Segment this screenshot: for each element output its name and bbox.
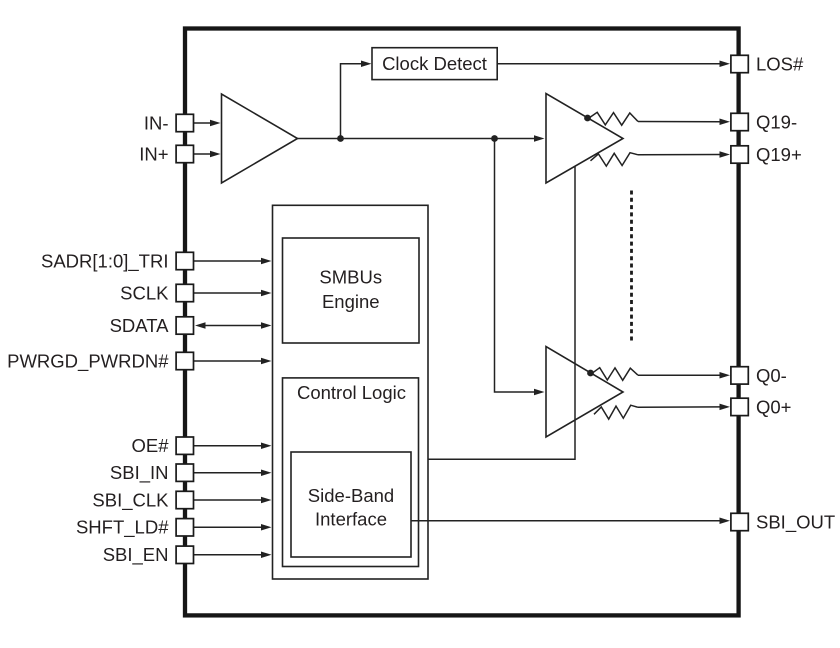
dashed line repeated outputs bbox=[630, 191, 633, 342]
svg-text:Interface: Interface bbox=[315, 509, 387, 530]
svg-text:SCLK: SCLK bbox=[120, 282, 169, 303]
wire enable from control logic container to upper buffer bbox=[428, 166, 575, 459]
svg-text:Clock Detect: Clock Detect bbox=[382, 53, 487, 74]
svg-text:Q0+: Q0+ bbox=[756, 396, 791, 417]
wire SHFT_LD# to container with arrowhead bbox=[194, 524, 272, 531]
pin SBI_OUT bbox=[731, 513, 748, 530]
wire SBI_EN to container with arrowhead bbox=[194, 552, 272, 559]
resistor termination Q19- zigzag bbox=[589, 112, 638, 125]
pin SCLK bbox=[176, 284, 193, 301]
label SMBUs Engine bbox=[319, 267, 382, 312]
pin SHFT_LD# bbox=[176, 519, 193, 536]
svg-text:Side-Band: Side-Band bbox=[308, 485, 394, 506]
wire IN+ to input buffer with arrowhead bbox=[194, 151, 221, 158]
wire Clock Detect to LOS# pin with arrowhead bbox=[498, 61, 731, 68]
wire resistor to Q0- pin with arrowhead bbox=[638, 372, 730, 379]
pin SBI_CLK bbox=[176, 491, 193, 508]
svg-text:SHFT_LD#: SHFT_LD# bbox=[76, 517, 169, 539]
output buffer lower (Q0) bbox=[546, 347, 623, 438]
pin LOS# bbox=[731, 55, 748, 72]
wire SDATA bidirectional arrows bbox=[195, 322, 272, 329]
node dot on upper buffer top slope bbox=[584, 115, 591, 122]
clock detect box bbox=[372, 48, 497, 80]
pin IN- bbox=[176, 114, 193, 131]
pin Q0+ bbox=[731, 398, 748, 415]
svg-text:IN+: IN+ bbox=[139, 143, 168, 164]
pin SBI_EN bbox=[176, 546, 193, 563]
label Side-Band Interface bbox=[308, 485, 394, 530]
svg-text:SDATA: SDATA bbox=[110, 315, 170, 336]
control logic box bbox=[283, 378, 419, 567]
wire OE# to container with arrowhead bbox=[194, 442, 272, 449]
wire SADR[1:0]_TRI to container with arrowhead bbox=[194, 258, 272, 265]
output buffer upper (Q19) bbox=[546, 94, 623, 184]
svg-text:IN-: IN- bbox=[144, 112, 169, 133]
pin SDATA bbox=[176, 317, 193, 334]
pin Q0- bbox=[731, 367, 748, 384]
svg-text:Engine: Engine bbox=[322, 291, 380, 312]
wire main signal from input buffer to upper output buffer with arrowhead bbox=[298, 135, 545, 142]
wire side-band interface to SBI_OUT pin with arrowhead bbox=[411, 518, 730, 525]
svg-text:SBI_CLK: SBI_CLK bbox=[92, 489, 169, 511]
wire PWRGD_PWRDN# to container with arrowhead bbox=[194, 358, 272, 365]
wire IN- to input buffer with arrowhead bbox=[194, 120, 221, 127]
smbus engine box bbox=[283, 238, 420, 343]
svg-text:LOS#: LOS# bbox=[756, 53, 804, 74]
svg-text:SBI_IN: SBI_IN bbox=[110, 462, 169, 484]
wire resistor to Q19+ pin with arrowhead bbox=[638, 151, 730, 158]
resistor termination Q0+ zigzag bbox=[594, 405, 638, 419]
resistor termination Q0- zigzag bbox=[592, 368, 638, 381]
pin PWRGD_PWRDN# bbox=[176, 352, 193, 369]
side-band interface box bbox=[291, 452, 411, 557]
wire junction A up to Clock Detect with arrowhead bbox=[341, 61, 372, 139]
svg-text:SBI_OUT: SBI_OUT bbox=[756, 511, 835, 533]
wire SBI_IN to container with arrowhead bbox=[194, 469, 272, 476]
pin SBI_IN bbox=[176, 464, 193, 481]
svg-text:SMBUs: SMBUs bbox=[319, 267, 382, 288]
wire resistor to Q0+ pin with arrowhead bbox=[638, 404, 730, 411]
pin OE# bbox=[176, 437, 193, 454]
node junction A on main wire bbox=[337, 135, 344, 142]
svg-text:PWRGD_PWRDN#: PWRGD_PWRDN# bbox=[7, 350, 169, 372]
svg-text:SBI_EN: SBI_EN bbox=[103, 544, 169, 566]
svg-text:Q19-: Q19- bbox=[756, 111, 797, 132]
pin IN+ bbox=[176, 145, 193, 162]
smbus and control container box bbox=[273, 205, 429, 579]
svg-text:Q0-: Q0- bbox=[756, 365, 787, 386]
node dot on lower buffer top slope bbox=[587, 370, 594, 377]
wire SCLK to container with arrowhead bbox=[194, 290, 272, 297]
wire SBI_CLK to container with arrowhead bbox=[194, 497, 272, 504]
input buffer amplifier bbox=[222, 94, 298, 183]
chip boundary bbox=[185, 29, 739, 616]
wire junction B down to lower output buffer with arrowhead bbox=[495, 139, 545, 396]
resistor termination Q19+ zigzag bbox=[591, 153, 639, 166]
svg-text:SADR[1:0]_TRI: SADR[1:0]_TRI bbox=[41, 250, 169, 272]
pin SADR[1:0]_TRI bbox=[176, 252, 193, 269]
pin Q19- bbox=[731, 113, 748, 130]
pin Q19+ bbox=[731, 146, 748, 163]
svg-text:OE#: OE# bbox=[131, 435, 169, 456]
svg-text:Control Logic: Control Logic bbox=[297, 382, 406, 403]
node junction B on main wire bbox=[491, 135, 498, 142]
wire resistor to Q19- pin with arrowhead bbox=[638, 119, 730, 126]
svg-text:Q19+: Q19+ bbox=[756, 144, 802, 165]
